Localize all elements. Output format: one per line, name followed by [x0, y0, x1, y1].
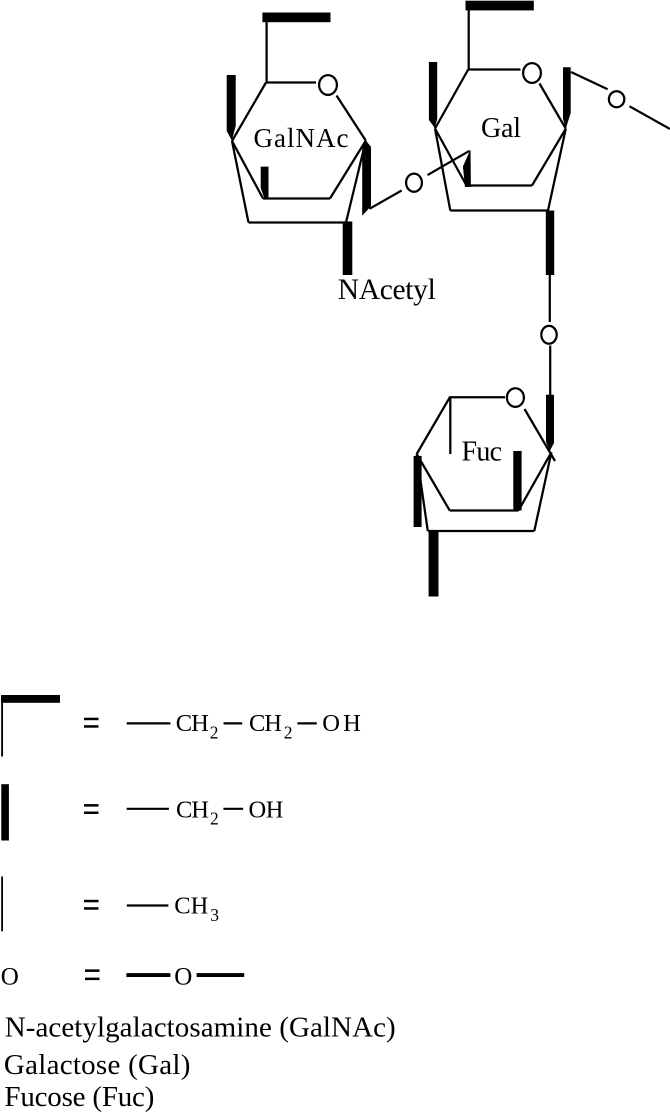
GalNAc C6 thin vertical line	[265, 22, 267, 83]
legend row1 equals	[84, 718, 99, 721]
svg-text:Gal: Gal	[481, 113, 521, 144]
Gal skirt right edge	[548, 129, 566, 211]
svg-text:2: 2	[210, 723, 219, 743]
bond Gal C1 to external O	[571, 72, 608, 89]
svg-text:O: O	[1, 963, 19, 990]
GalNAc ring bottom edge	[263, 197, 330, 199]
Fuc left thick bar	[414, 456, 422, 527]
Gal left OH thick bar	[429, 62, 437, 128]
Gal ring edge O to C1	[540, 84, 566, 129]
svg-text:O: O	[174, 963, 192, 990]
GalNAc anomeric thick bar	[362, 140, 371, 215]
Gal ring top edge	[468, 68, 521, 70]
bond Gal to linkage O	[549, 275, 551, 322]
legend row2 symbol: CH2OH thick bar	[1, 784, 9, 840]
svg-text:CH: CH	[176, 796, 209, 823]
Fuc ring edge O to C1	[525, 409, 556, 461]
GalNAc NAcetyl thick bar	[343, 222, 353, 276]
svg-text:CH: CH	[174, 893, 208, 920]
Gal C3 attachment thick bar	[463, 150, 471, 188]
GalNAc ring O	[319, 75, 337, 95]
glycosidic bond GalNAc to O	[370, 191, 402, 209]
Fuc ring top edge	[449, 396, 505, 398]
legend row4 formula	[126, 973, 170, 977]
svg-text:GalNAc: GalNAc	[254, 123, 349, 153]
svg-text:NAcetyl: NAcetyl	[338, 274, 436, 306]
Gal skirt bottom edge	[450, 209, 548, 211]
external O (top right)	[609, 91, 624, 107]
Gal ring edge C4 to C5	[435, 69, 469, 129]
GalNAc inner OH thick bar	[261, 167, 269, 198]
Gal C2 thick bar below skirt	[546, 211, 554, 276]
Fuc ring edge C4 to C5	[417, 397, 450, 454]
Fuc ring O	[507, 388, 524, 407]
Fuc skirt left edge	[417, 454, 428, 531]
svg-text:OH: OH	[249, 796, 284, 823]
legend row1 symbol: CH2CH2OH bar	[1, 695, 60, 703]
Fuc ring edge C1 to bottom-right	[519, 452, 552, 510]
bond external O off page	[630, 106, 670, 129]
Fuc skirt right edge	[534, 452, 551, 531]
legend row2 equals	[84, 804, 99, 807]
GalNAc skirt right edge	[346, 141, 366, 223]
svg-text:CH: CH	[176, 710, 209, 737]
legend row3 symbol: CH3 thin line	[1, 877, 3, 932]
linkage O (Gal-Fuc)	[541, 326, 556, 344]
legend row4 equals	[85, 969, 100, 972]
svg-text:Galactose (Gal): Galactose (Gal)	[4, 1049, 191, 1081]
svg-text:Fucose (Fuc): Fucose (Fuc)	[4, 1081, 154, 1113]
svg-text:Fuc: Fuc	[462, 437, 503, 468]
svg-text:2: 2	[284, 723, 293, 743]
Gal CH2CH2OH thick top bar	[466, 1, 534, 11]
Fuc bottom thick bar	[429, 532, 439, 597]
bond linkage O to Fuc	[549, 346, 551, 396]
svg-text:2: 2	[210, 809, 219, 829]
svg-text:CH: CH	[249, 710, 282, 737]
Gal ring edge C1 to bottom-right	[532, 129, 566, 186]
glycosidic bond O to Gal	[428, 151, 470, 175]
Fuc inner thick bar	[513, 451, 521, 511]
GalNAc ring edge bottom-left to C4	[232, 141, 263, 199]
GalNAc ring edge C1 to bottom-right	[330, 141, 366, 199]
Fuc ring bottom edge	[450, 509, 519, 511]
Fuc anomeric thick bar	[546, 395, 554, 451]
GalNAc ring edge C4 to C5	[232, 83, 266, 142]
GalNAc CH2CH2OH thick top bar	[262, 13, 330, 23]
Gal ring edge bottom-left to C4	[435, 129, 467, 186]
legend row3 equals	[84, 900, 99, 903]
Gal C6 thin vertical line	[468, 10, 470, 70]
glycosidic O (GalNAc-Gal)	[406, 174, 422, 192]
GalNAc ring edge O to C1	[337, 96, 366, 141]
Fuc ring edge bottom-left to C4	[417, 454, 450, 511]
svg-text:N-acetylgalactosamine (GalNAc): N-acetylgalactosamine (GalNAc)	[5, 1011, 396, 1043]
Gal ring O	[523, 63, 541, 83]
legend row3 formula	[127, 904, 169, 906]
GalNAc left OH thick bar	[227, 75, 236, 141]
legend row1 formula	[127, 722, 171, 724]
Fuc skirt bottom edge	[428, 530, 535, 532]
Gal ring bottom edge	[467, 184, 533, 186]
GalNAc ring top edge	[266, 81, 317, 83]
Gal skirt left edge	[435, 129, 450, 211]
GalNAc skirt bottom edge	[249, 221, 347, 223]
GalNAc skirt left edge	[232, 141, 249, 223]
legend row2 formula	[127, 808, 169, 810]
Fuc CH3 thin line	[449, 398, 451, 454]
Gal anomeric thick bar	[563, 67, 571, 129]
svg-text:3: 3	[210, 905, 219, 925]
